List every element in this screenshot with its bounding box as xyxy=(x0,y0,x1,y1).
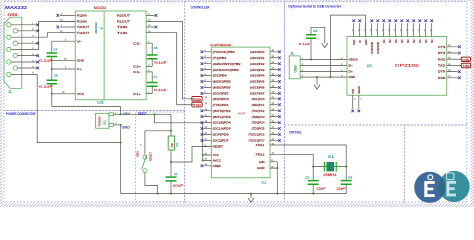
svg-text:NC: NC xyxy=(407,39,410,43)
svg-text:(ADC7)PA7: (ADC7)PA7 xyxy=(250,92,265,96)
net label TXD (IC1 PD1) xyxy=(192,102,202,107)
svg-text:D+: D+ xyxy=(348,70,353,74)
wire crystal right to C3 xyxy=(345,167,347,181)
capacitor C8 xyxy=(310,38,312,59)
svg-text:C2-: C2- xyxy=(133,41,141,45)
wire XTAL1 to crystal right xyxy=(278,145,346,167)
section box POWER CONNECTOR xyxy=(4,111,185,203)
junction C4-GND xyxy=(51,59,53,61)
pin numbers DB9 xyxy=(32,23,34,75)
svg-text:16: 16 xyxy=(424,30,426,32)
wire C1 bottom to rail xyxy=(170,181,172,194)
no-connect U2 R2OUT T2IN xyxy=(155,14,158,17)
svg-text:0.1uF: 0.1uF xyxy=(154,88,167,92)
svg-text:AVCC: AVCC xyxy=(213,159,221,163)
junction V+ xyxy=(51,68,53,70)
svg-text:V-: V- xyxy=(77,39,82,43)
pin names U2 right xyxy=(117,14,141,96)
svg-text:R1: R1 xyxy=(175,142,179,146)
svg-text:V+: V+ xyxy=(77,67,83,71)
svg-text:XTAL1: XTAL1 xyxy=(256,143,266,147)
svg-text:(INT1)PD3: (INT1)PD3 xyxy=(213,115,232,119)
wire DB9 pin2 to U2 T1OUT xyxy=(37,33,75,38)
pin names IC1 right xyxy=(249,50,266,170)
svg-text:RESET: RESET xyxy=(148,152,152,161)
svg-text:22: 22 xyxy=(388,30,390,32)
svg-text:VBUS: VBUS xyxy=(348,58,357,62)
wire reset node to C1 xyxy=(170,162,172,177)
svg-text:IC1: IC1 xyxy=(262,180,267,184)
wire U3 RXD to label xyxy=(447,58,462,60)
wire R1 bottom to reset node xyxy=(170,150,172,162)
svg-text:(AIN0/INT2)PB2: (AIN0/INT2)PB2 xyxy=(213,62,242,66)
svg-text:AGND: AGND xyxy=(257,166,265,170)
svg-text:(SS)PB4: (SS)PB4 xyxy=(213,74,228,78)
node +5V xyxy=(119,113,121,115)
svg-text:(SDA)PC1: (SDA)PC1 xyxy=(252,103,265,107)
pin numbers U2 left xyxy=(60,14,67,94)
wire GND bottom rail xyxy=(121,193,347,195)
svg-text:Optional Serial to USB Convert: Optional Serial to USB Converter xyxy=(288,4,342,8)
wire switch top to R1 top xyxy=(145,131,171,155)
svg-text:POWER CONNECTOR: POWER CONNECTOR xyxy=(6,112,36,116)
junction R1 top / switch wire xyxy=(170,130,172,132)
svg-text:NC: NC xyxy=(395,39,398,43)
crystal X1 xyxy=(324,162,336,172)
wire C3 bottom to rail xyxy=(345,184,347,193)
switch SW1 xyxy=(142,155,147,173)
svg-text:(TCK)PC2: (TCK)PC2 xyxy=(252,109,265,113)
svg-text:RXD: RXD xyxy=(193,97,201,101)
wire IC1 GND AGND to rail xyxy=(276,162,278,194)
svg-text:NC: NC xyxy=(413,39,416,43)
svg-text:22pF: 22pF xyxy=(317,187,326,191)
section box RESET xyxy=(135,112,184,202)
wire C2 bottom to rail xyxy=(312,184,314,193)
svg-text:19: 19 xyxy=(406,30,408,32)
svg-text:R2IN: R2IN xyxy=(77,14,87,18)
svg-text:(ADC4)PA4: (ADC4)PA4 xyxy=(250,74,265,78)
svg-text:C2+: C2+ xyxy=(133,65,141,69)
wire C6 bottom to U2 C2+ xyxy=(146,59,152,67)
section box logo xyxy=(404,125,467,202)
svg-text:16MHz: 16MHz xyxy=(323,173,337,177)
svg-text:0.1uF: 0.1uF xyxy=(154,61,167,65)
wire U2 C1- to C7 xyxy=(146,72,152,83)
svg-text:22pF: 22pF xyxy=(337,187,346,191)
junction crystal right xyxy=(345,166,347,168)
svg-text:RXD: RXD xyxy=(462,58,469,62)
net label RXD (U3) xyxy=(461,57,470,61)
svg-text:6: 6 xyxy=(354,99,355,101)
junction +5V branch xyxy=(153,113,155,115)
svg-text:TXD: TXD xyxy=(438,64,446,68)
svg-text:GND: GND xyxy=(77,58,85,62)
svg-text:RESET: RESET xyxy=(213,145,224,149)
svg-text:24: 24 xyxy=(376,30,378,32)
svg-text:C6: C6 xyxy=(154,46,158,50)
connector J1 DB9 xyxy=(4,17,22,88)
wire U3 TXD to label xyxy=(447,64,462,66)
svg-text:(OC1B)PD4: (OC1B)PD4 xyxy=(213,121,232,125)
microcontroller IC1 ATMEGA32 box xyxy=(211,47,270,178)
svg-text:C1+: C1+ xyxy=(133,92,141,96)
wire XTAL2 to crystal left xyxy=(278,154,313,166)
svg-text:(TOSC2)PC7: (TOSC2)PC7 xyxy=(249,139,265,143)
svg-text:17: 17 xyxy=(418,30,420,32)
svg-text:(TDI)PC5: (TDI)PC5 xyxy=(252,127,265,131)
svg-text:J2: J2 xyxy=(290,52,294,56)
wire stubs U3 bottom xyxy=(353,95,359,109)
svg-text:XTAL2: XTAL2 xyxy=(256,152,266,156)
wire C7 bottom to U2 C1+ xyxy=(146,86,152,93)
svg-text:CP2102: CP2102 xyxy=(395,64,419,68)
svg-text:C5: C5 xyxy=(54,74,58,78)
svg-text:0.1uF: 0.1uF xyxy=(299,42,310,46)
svg-text:NC: NC xyxy=(401,39,404,43)
svg-text:(TXD)PD1: (TXD)PD1 xyxy=(213,103,230,107)
junction VCC xyxy=(202,154,204,156)
svg-text:C7: C7 xyxy=(153,75,157,79)
junction AVCC xyxy=(202,159,204,161)
no-connects U3 VDD REGIN xyxy=(351,110,354,113)
svg-text:C4: C4 xyxy=(53,48,57,52)
svg-text:(RXD)PD0: (RXD)PD0 xyxy=(213,97,230,101)
wire switch bottom to rail xyxy=(145,173,158,194)
capacitor C6 xyxy=(147,55,158,59)
svg-text:(MISO)PB6: (MISO)PB6 xyxy=(213,86,232,90)
wire +5V rail to reset and controller VCC xyxy=(121,114,203,160)
no-connects U3 top pins xyxy=(352,19,433,22)
svg-text:DCD: DCD xyxy=(353,39,356,45)
pin names U3 left xyxy=(348,58,357,80)
svg-text:SW1: SW1 xyxy=(136,151,140,157)
section box MAX232 xyxy=(4,2,185,111)
resistor R1 xyxy=(168,136,174,150)
svg-text:26: 26 xyxy=(364,30,366,32)
svg-text:GND: GND xyxy=(365,39,368,45)
pin names U3 right xyxy=(438,45,446,80)
svg-text:7: 7 xyxy=(360,99,361,101)
connector J3 POWER xyxy=(96,113,114,128)
ground symbol (C8) xyxy=(322,43,328,48)
svg-text:(ADC1)PA1: (ADC1)PA1 xyxy=(250,56,265,60)
svg-text:DSR: DSR xyxy=(438,76,446,80)
svg-text:U2: U2 xyxy=(97,100,104,104)
svg-text:R1IN: R1IN xyxy=(77,20,87,24)
wire GND vertical to bottom rail xyxy=(120,125,122,194)
wire C5 bottom to U2 VCC and +5V node xyxy=(52,84,121,115)
svg-text:X1: X1 xyxy=(328,155,335,159)
logo circle blue xyxy=(414,172,445,203)
svg-text:(OC1A)PD5: (OC1A)PD5 xyxy=(213,127,232,131)
svg-text:J1: J1 xyxy=(8,90,12,94)
svg-text:10uF: 10uF xyxy=(173,183,184,187)
svg-text:GND: GND xyxy=(259,160,265,164)
svg-text:R1OUT: R1OUT xyxy=(117,20,130,24)
pin numbers U3 right xyxy=(448,45,451,78)
svg-text:RTS: RTS xyxy=(438,51,446,55)
svg-text:NC: NC xyxy=(425,39,428,43)
svg-text:DTR: DTR xyxy=(438,70,446,74)
svg-text:RXD: RXD xyxy=(438,57,446,61)
junction DB9 gnd tee xyxy=(120,141,122,143)
svg-text:SUSPEND: SUSPEND xyxy=(377,42,380,54)
svg-text:T1IN: T1IN xyxy=(117,31,127,35)
pin names IC1 left xyxy=(213,50,242,168)
no-connects DB9 pins 1 6 7 8 4 9 xyxy=(36,23,39,69)
wire DB9 pin5 GND down to power rail xyxy=(37,74,121,142)
wire crystal left to C2 xyxy=(312,167,314,181)
svg-text:(TDO)PC4: (TDO)PC4 xyxy=(252,121,265,125)
capacitor C2 xyxy=(308,181,319,185)
junction rail at C2 xyxy=(312,193,314,195)
svg-text:T1OUT: T1OUT xyxy=(77,31,90,35)
capacitor C7 xyxy=(147,83,158,87)
wire stubs IC1 right xyxy=(270,52,278,168)
section box Optional Serial to USB Converter xyxy=(285,2,467,125)
wire C4 bottom / U2 GND xyxy=(52,57,75,70)
junction reset node xyxy=(170,161,172,163)
svg-text:C1: C1 xyxy=(174,172,178,176)
svg-text:MAX232: MAX232 xyxy=(94,22,98,33)
wire stubs U3 right xyxy=(447,47,458,78)
svg-text:GND: GND xyxy=(348,75,355,79)
junction crystal left xyxy=(312,166,314,168)
svg-text:POWER: POWER xyxy=(97,116,101,126)
wire stubs U2 left top pins xyxy=(60,15,75,32)
svg-text:SUSPEND: SUSPEND xyxy=(371,42,374,54)
wire DB9 pin3 to U2 R1IN xyxy=(37,21,75,49)
pin numbers IC1 left xyxy=(205,50,208,166)
node GND xyxy=(120,124,122,126)
svg-text:TXD: TXD xyxy=(462,64,469,68)
svg-text:TXD: TXD xyxy=(193,103,201,107)
svg-text:NC: NC xyxy=(431,39,434,43)
pin numbers U3 top xyxy=(352,30,432,32)
svg-text:(AIN1/OC0)PB3: (AIN1/OC0)PB3 xyxy=(213,68,240,72)
wire U2 V+ to C5 xyxy=(52,69,75,80)
svg-text:(OC2)PD7: (OC2)PD7 xyxy=(213,139,230,143)
svg-text:VDD: VDD xyxy=(352,88,355,93)
svg-text:(ADC5)PA5: (ADC5)PA5 xyxy=(250,80,265,84)
svg-text:AVR: AVR xyxy=(238,111,246,115)
wire usb gnd bridge to CP2102 top pin xyxy=(330,15,365,77)
svg-text:D-: D- xyxy=(348,64,353,68)
pin names U3 top (vertical) xyxy=(353,39,434,54)
wires USB to CP2102 xyxy=(300,60,347,78)
svg-text:(MOSI)PB5: (MOSI)PB5 xyxy=(213,80,232,84)
svg-text:REGIN: REGIN xyxy=(358,86,361,94)
junction rail at C1 xyxy=(170,193,172,195)
svg-text:0.1uF: 0.1uF xyxy=(39,58,52,62)
svg-text:IC: IC xyxy=(100,27,104,30)
no-connects IC1 left xyxy=(201,50,204,167)
svg-text:USB: USB xyxy=(293,65,297,73)
capacitor C3 xyxy=(341,181,352,185)
connector J2 USB xyxy=(289,56,300,79)
section box CRYSTAL xyxy=(285,125,405,202)
svg-text:CRYSTAL: CRYSTAL xyxy=(289,131,302,135)
svg-text:NC: NC xyxy=(389,39,392,43)
svg-text:U3: U3 xyxy=(367,64,372,68)
svg-text:(ADC2)PA2: (ADC2)PA2 xyxy=(250,62,265,66)
svg-text:(ADC3)PA3: (ADC3)PA3 xyxy=(250,68,265,72)
wire stubs IC1 left xyxy=(203,52,211,166)
svg-text:(TMS)PC3: (TMS)PC3 xyxy=(252,115,265,119)
capacitor C4 xyxy=(47,53,58,57)
svg-text:(T0/XCK)PB0: (T0/XCK)PB0 xyxy=(213,50,236,54)
svg-text:CTS: CTS xyxy=(438,45,446,49)
wire stubs U3 top xyxy=(354,23,432,36)
svg-text:AREF: AREF xyxy=(213,164,222,168)
svg-text:C8: C8 xyxy=(313,29,317,33)
wires DB9 pin stubs xyxy=(11,25,37,75)
logo circle teal xyxy=(438,171,469,202)
svg-text:VCC: VCC xyxy=(213,153,219,157)
capacitor C5 xyxy=(47,80,58,84)
wire U2 T1IN to TXD (PD1) xyxy=(146,33,194,105)
wire C8 top to ground xyxy=(311,27,325,43)
section box CONTROLLER xyxy=(185,2,285,202)
svg-text:NC: NC xyxy=(419,39,422,43)
svg-text:(INT0)PD2: (INT0)PD2 xyxy=(213,109,232,113)
svg-text:23: 23 xyxy=(382,30,384,32)
svg-text:SL2: SL2 xyxy=(103,120,107,125)
junction rail at switch xyxy=(157,193,159,195)
svg-text:MAX232: MAX232 xyxy=(94,6,106,10)
USB-serial U3 CP2102 box xyxy=(347,37,447,96)
svg-text:C2: C2 xyxy=(305,176,309,180)
svg-text:20: 20 xyxy=(400,30,402,32)
junction rail at IC1 gnd xyxy=(276,193,278,195)
pin numbers USB side xyxy=(302,58,344,78)
svg-text:15: 15 xyxy=(430,30,432,32)
wire U2 R1OUT to RXD (PD0) xyxy=(146,21,194,98)
svg-text:0.1uF: 0.1uF xyxy=(39,85,52,89)
svg-text:DB9: DB9 xyxy=(8,13,18,17)
svg-text:18: 18 xyxy=(412,30,414,32)
wire +5V down to R1 xyxy=(170,114,172,136)
wire power pin1 to +5V node xyxy=(114,113,121,115)
wire usb gnd to ground symbol xyxy=(316,77,318,85)
junction AGND xyxy=(276,167,278,169)
svg-text:10K: 10K xyxy=(170,143,174,148)
svg-text:21: 21 xyxy=(394,30,396,32)
wire U2 V- to C4 xyxy=(52,41,75,53)
svg-text:RI: RI xyxy=(359,40,362,43)
IC U2 MAX232 xyxy=(75,11,146,100)
svg-text:VCC: VCC xyxy=(77,92,85,96)
svg-text:C3: C3 xyxy=(348,176,352,180)
svg-text:MAX232: MAX232 xyxy=(5,5,28,10)
svg-text:CONTROLLER: CONTROLLER xyxy=(191,6,210,10)
svg-text:(ADC0)PA0: (ADC0)PA0 xyxy=(250,50,265,54)
junction VCC wire xyxy=(51,93,53,95)
svg-text:28: 28 xyxy=(352,30,354,32)
no-connect U2 R2IN T2OUT xyxy=(56,14,59,17)
svg-text:(ADC6)PA6: (ADC6)PA6 xyxy=(250,86,265,90)
wire through crystal xyxy=(313,166,346,168)
svg-text:(TOSC1)PC6: (TOSC1)PC6 xyxy=(249,133,265,137)
svg-text:(SCK)PB7: (SCK)PB7 xyxy=(213,92,230,96)
svg-text:27: 27 xyxy=(358,30,360,32)
wire U2 C2- to C6 xyxy=(146,43,152,55)
net label TXD (U3) xyxy=(461,63,470,67)
svg-text:T2OUT: T2OUT xyxy=(77,25,90,29)
wire reset node to IC1 RESET pin xyxy=(171,147,211,162)
capacitor C1 xyxy=(166,177,177,181)
pin names U2 left xyxy=(77,14,90,96)
no-connects IC1 right xyxy=(278,50,281,141)
no-connects U3 CTS RTS DTR DSR xyxy=(458,45,461,79)
pin numbers U2 right xyxy=(148,14,151,94)
wire stubs IC1 RESET VCC AVCC xyxy=(203,147,212,161)
svg-text:(T1)PB1: (T1)PB1 xyxy=(213,56,228,60)
svg-text:T2IN: T2IN xyxy=(117,25,127,29)
wire stubs U2 right pins xyxy=(146,15,154,27)
svg-text:GND: GND xyxy=(122,125,131,129)
net label RXD (IC1 PD0) xyxy=(192,97,202,102)
svg-text:NC: NC xyxy=(383,39,386,43)
svg-text:IC1/ATMEGA32: IC1/ATMEGA32 xyxy=(210,43,231,47)
pin numbers IC1 right xyxy=(271,50,275,168)
ground symbol (USB) xyxy=(314,85,320,90)
svg-text:(ICP)PD6: (ICP)PD6 xyxy=(213,133,230,137)
svg-text:(SCL)PC0: (SCL)PC0 xyxy=(252,97,265,101)
wire power pin2 to GND node xyxy=(114,124,121,126)
svg-text:C1-: C1- xyxy=(133,70,141,74)
svg-text:R2OUT: R2OUT xyxy=(117,14,130,18)
svg-text:25: 25 xyxy=(370,30,372,32)
ground symbol (controller) xyxy=(250,193,252,195)
